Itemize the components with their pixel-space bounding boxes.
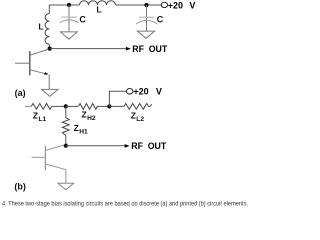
svg-text:L1: L1 (39, 116, 47, 123)
svg-text:Z: Z (74, 123, 79, 133)
ground below C1 (61, 32, 78, 39)
arrow RF OUT (a) (126, 47, 131, 51)
svg-text:OUT: OUT (149, 44, 168, 54)
node dot collector junction (b) (64, 144, 68, 148)
svg-text:+20: +20 (133, 86, 148, 96)
svg-text:4. These two-stage bias isolat: 4. These two-stage bias isolating circui… (2, 201, 248, 207)
transistor Q2 emitter lead (45, 164, 66, 170)
svg-text:(b): (b) (14, 181, 26, 191)
svg-text:V: V (156, 86, 162, 96)
wire ZL1 to node (52, 105, 66, 107)
node dot ZH2/ZL2/+20V (107, 104, 111, 108)
wire RF OUT (a) (50, 48, 127, 50)
svg-text:V: V (189, 0, 195, 10)
svg-text:L: L (96, 5, 102, 15)
wire node2 to ZL2 (109, 105, 124, 107)
wire emitter to ground (a) (48, 75, 50, 90)
svg-text:H1: H1 (79, 129, 88, 136)
wire node to ZH2 (66, 105, 78, 107)
wire ZH2 to node2 (97, 105, 110, 107)
transistor Q1 emitter arrowhead (44, 72, 48, 75)
svg-text:OUT: OUT (148, 141, 167, 151)
wire top rail (a) (49, 5, 79, 14)
inductor L (series, horizontal) (80, 1, 116, 5)
svg-text:L2: L2 (136, 116, 144, 123)
node collector junction (a) (48, 47, 52, 51)
capacitor C2 curved plate (136, 20, 158, 24)
resistor ZH1 (62, 118, 69, 136)
ground below Q2 emitter (58, 183, 74, 189)
terminal circle +20V (a) (161, 2, 167, 7)
node junction dot (L / C2 / +20V) (144, 3, 148, 7)
resistor ZL2 (124, 104, 152, 110)
transistor Q2 collector lead (45, 145, 64, 151)
transistor Q1 collector lead (30, 49, 49, 55)
capacitor C2 straight plate (139, 16, 154, 18)
svg-text:RF: RF (132, 44, 144, 54)
capacitor C1 straight plate (61, 16, 77, 18)
wire ZH1 to node3 (65, 136, 67, 146)
svg-text:(a): (a) (15, 88, 26, 98)
svg-text:Z: Z (82, 110, 87, 120)
capacitor C1 curved plate (60, 20, 79, 23)
node junction dot (L / C1) (67, 3, 71, 7)
transistor Q2 base bar (44, 146, 46, 170)
wire inductor bottom to node (48, 44, 50, 48)
svg-text:+20: +20 (168, 0, 183, 10)
wire top rail right segment (116, 4, 162, 6)
wire emitter to ground (b) (65, 170, 67, 184)
terminal circle +20V (b) (126, 89, 133, 95)
capacitor C2 feed wire (146, 5, 148, 31)
transistor Q2 base lead (32, 156, 46, 158)
svg-text:L: L (38, 22, 44, 32)
svg-text:Z: Z (131, 110, 136, 120)
svg-text:H2: H2 (87, 115, 96, 122)
svg-text:C: C (157, 14, 164, 24)
svg-text:C: C (79, 15, 86, 25)
resistor ZH2 (79, 104, 98, 110)
svg-text:RF: RF (131, 141, 143, 151)
wire +20V riser (b) (109, 91, 126, 106)
wire node to ZH1 (65, 106, 67, 117)
transistor Q1 base bar (29, 51, 31, 75)
ground below Q1 emitter (42, 89, 58, 96)
wire lead-in ZL1 (25, 106, 32, 108)
svg-text:Z: Z (33, 110, 38, 120)
inductor L (shunt, vertical) (45, 14, 49, 45)
transistor Q1 base lead (15, 62, 30, 64)
arrow RF OUT (b) (125, 144, 130, 148)
resistor ZL1 (31, 104, 51, 110)
node dot ZL1/ZH2/ZH1 (64, 104, 68, 108)
capacitor C1 feed wire (68, 5, 70, 32)
ground below C2 (137, 31, 154, 38)
wire RF OUT (b) (66, 145, 125, 147)
transistor Q1 emitter lead (30, 70, 47, 75)
